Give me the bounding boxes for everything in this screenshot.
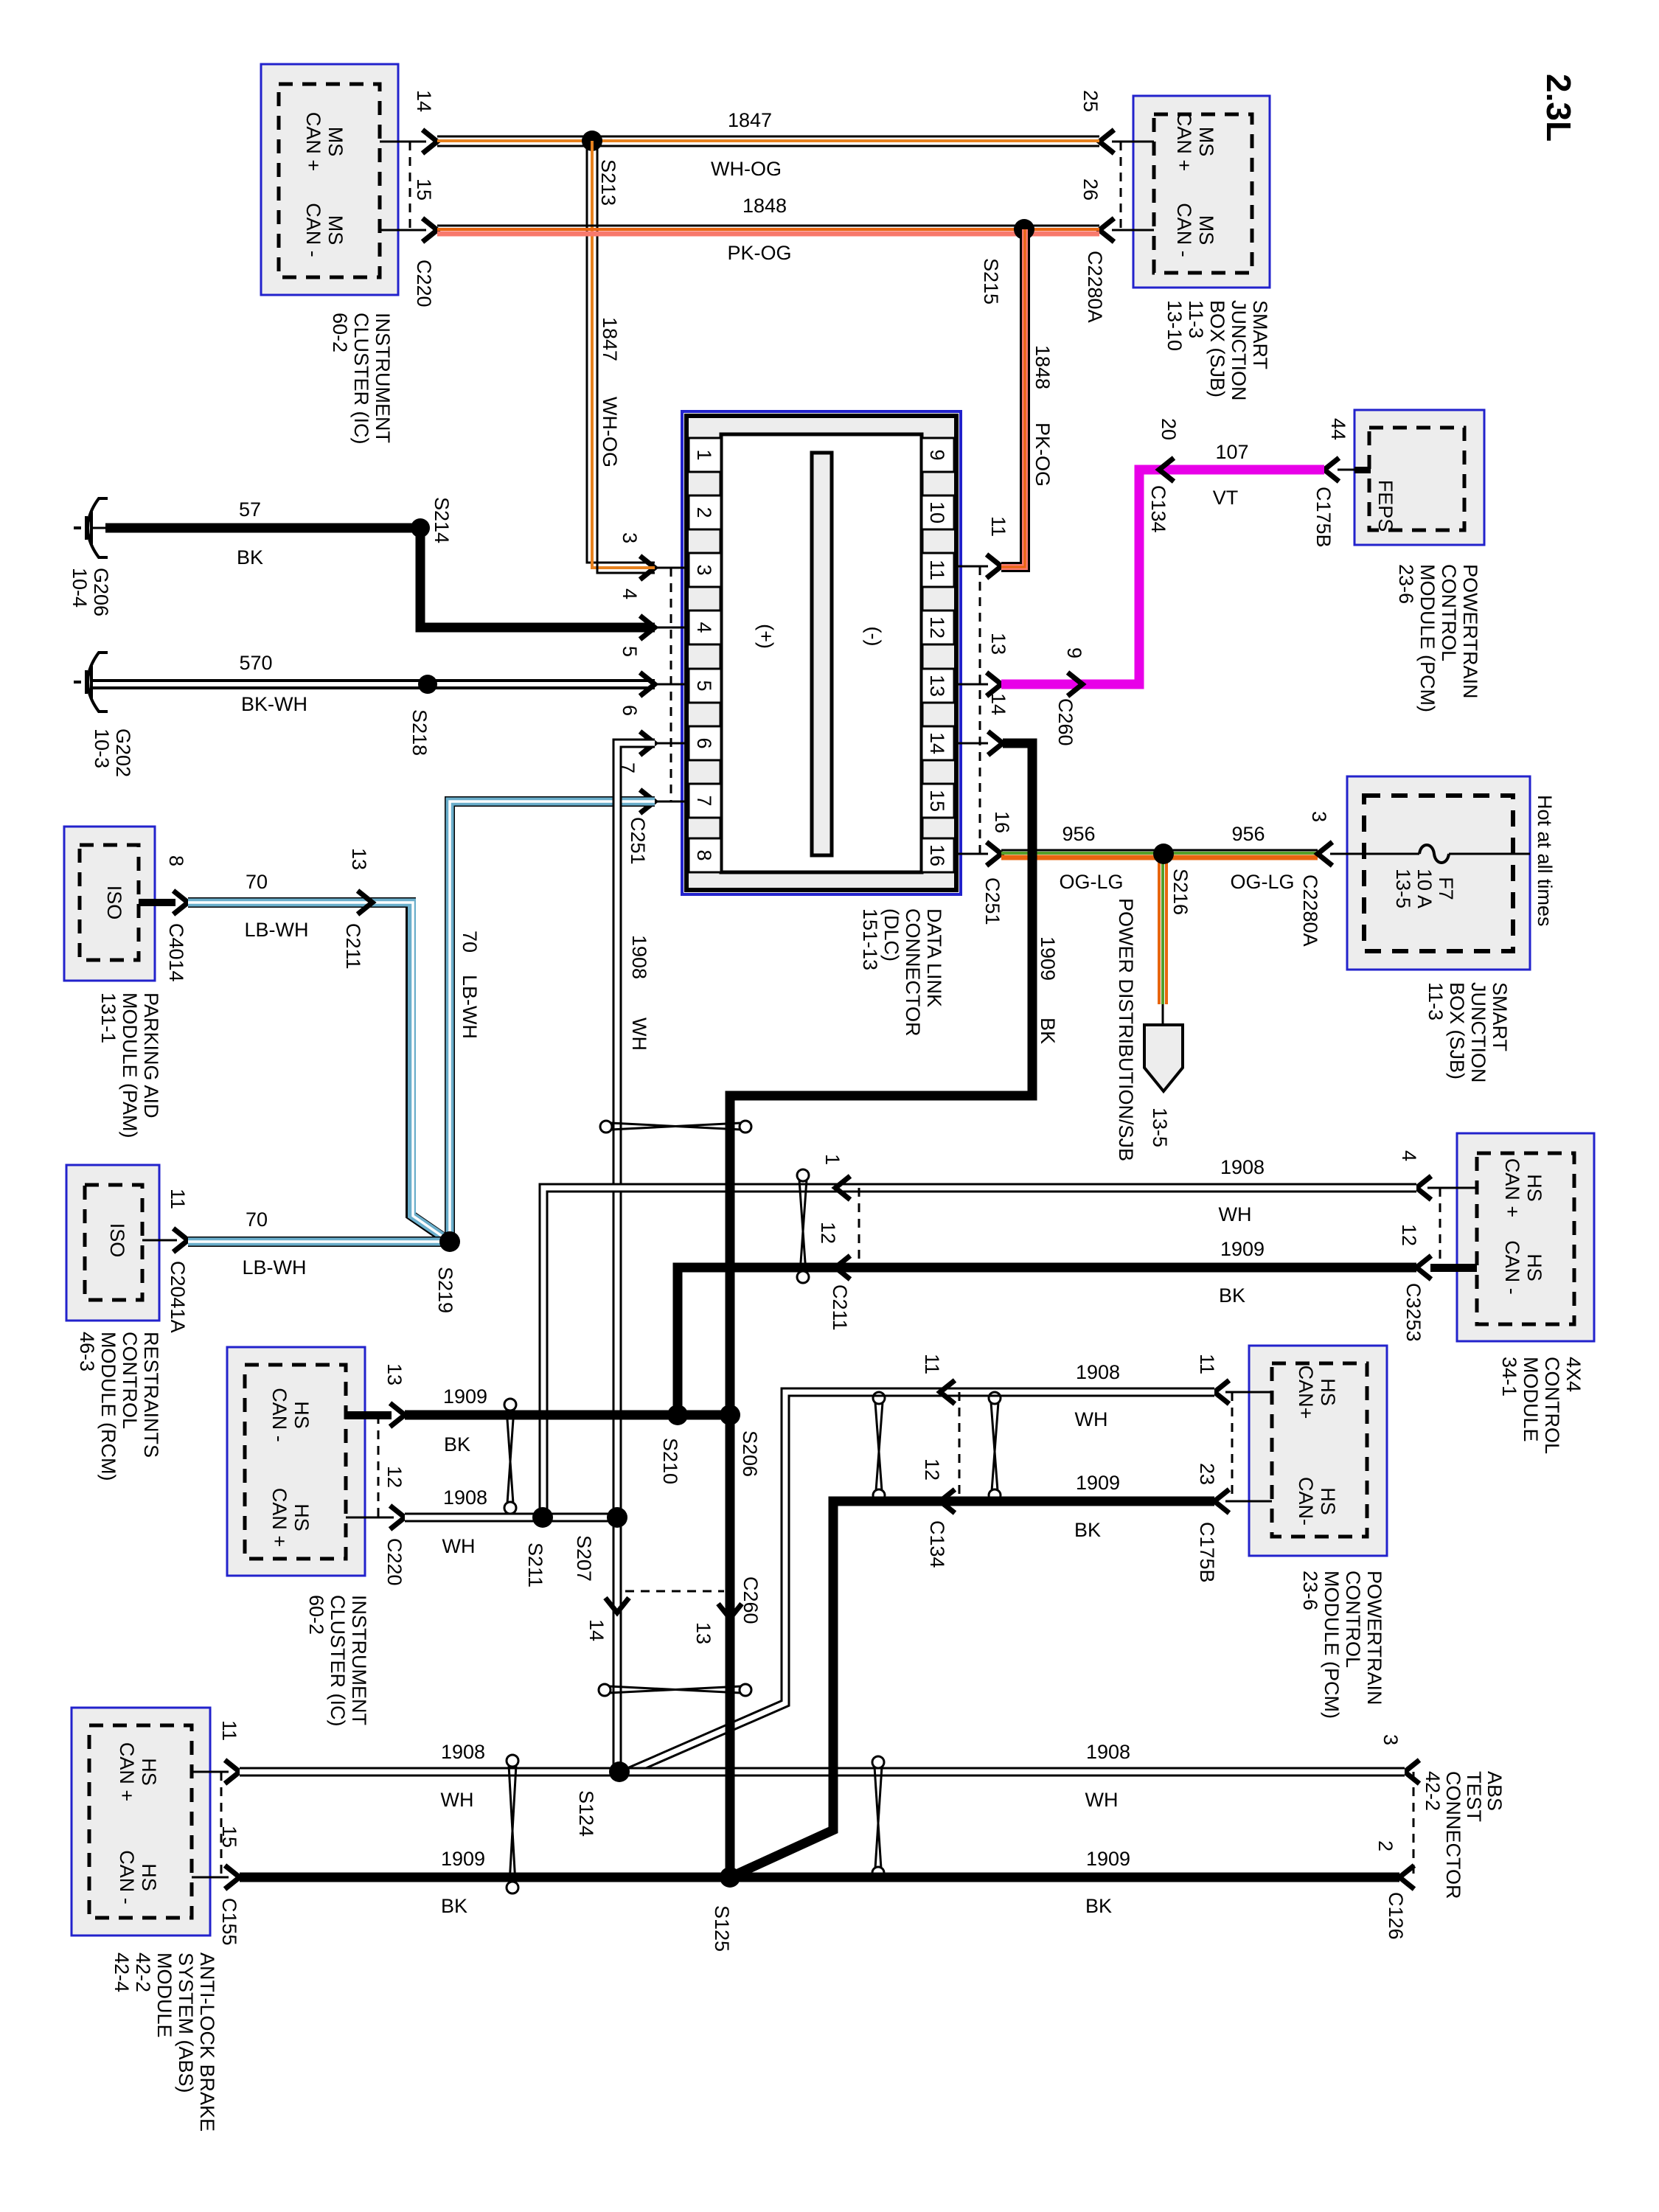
svg-text:HS: HS [1523,1174,1545,1202]
pin 8 stub PAM [139,855,188,914]
svg-text:F7: F7 [1435,877,1457,900]
svg-text:9: 9 [926,449,948,460]
svg-text:1847: 1847 [599,317,621,361]
label POWERTRAIN CONTROL MODULE (PCM) 23-6 bottom [1299,1571,1385,1719]
wire 70 LB-WH DLC pin 7 down to S219 [450,801,655,1242]
svg-text:C4014: C4014 [165,923,187,982]
svg-text:CONNECTOR: CONNECTOR [1442,1771,1464,1899]
svg-text:11: 11 [987,516,1009,537]
pin 23 stub PCM [1196,1463,1272,1513]
svg-text:12: 12 [1398,1224,1420,1246]
svg-text:BK: BK [444,1433,470,1455]
svg-text:C251: C251 [981,877,1004,925]
svg-text:25: 25 [1079,90,1102,112]
svg-text:G206: G206 [90,568,112,616]
svg-text:42-4: 42-4 [111,1952,133,1992]
svg-text:MODULE (PAM): MODULE (PAM) [119,992,141,1138]
svg-text:1909: 1909 [441,1848,485,1870]
label 1908 WH vertical [628,935,650,1051]
DLC pin 5 stub [619,646,686,696]
svg-text:WH-OG: WH-OG [711,158,782,180]
fuse F7 10A [1347,845,1530,908]
svg-text:MODULE: MODULE [153,1952,175,2038]
svg-text:S218: S218 [408,709,431,756]
svg-text:14: 14 [926,732,948,754]
svg-text:4: 4 [1398,1150,1420,1161]
svg-text:CONTROL: CONTROL [119,1332,141,1429]
svg-text:13-5: 13-5 [1149,1107,1171,1147]
twisted pair symbol 4X4 pair [797,1169,809,1283]
label 956 OG-LG left [1059,823,1123,893]
svg-text:CONTROL: CONTROL [1541,1357,1563,1454]
svg-text:C134: C134 [1147,485,1169,533]
label 1909 BK vertical [1037,936,1059,1044]
svg-text:HS: HS [138,1758,160,1786]
svg-text:12: 12 [817,1222,839,1244]
svg-text:S211: S211 [524,1543,546,1587]
svg-text:HS: HS [1317,1378,1339,1406]
pin 11 stub RCM [142,1189,189,1252]
svg-text:10-4: 10-4 [69,568,91,608]
svg-text:23: 23 [1196,1463,1218,1485]
svg-text:6: 6 [619,705,641,716]
label 1847 WH-OG [711,109,782,180]
svg-text:MS: MS [324,127,347,157]
svg-text:6: 6 [693,737,715,748]
svg-text:G202: G202 [112,728,134,777]
svg-text:S219: S219 [434,1267,456,1313]
svg-text:CONTROL: CONTROL [1342,1571,1364,1668]
svg-text:3: 3 [693,564,715,575]
svg-text:1908: 1908 [1076,1361,1120,1383]
svg-text:13: 13 [383,1363,406,1385]
svg-text:5: 5 [619,646,641,657]
svg-text:1909: 1909 [1076,1472,1120,1494]
label 1908 WH 4X4 [1219,1156,1265,1225]
svg-text:BK: BK [441,1895,467,1917]
svg-text:MODULE (PCM): MODULE (PCM) [1321,1571,1343,1719]
svg-text:S125: S125 [711,1905,733,1952]
svg-text:PK-OG: PK-OG [727,242,791,264]
DLC left pin cells 1-8 [689,438,721,872]
svg-text:11: 11 [1196,1354,1218,1374]
svg-text:(DLC): (DLC) [880,908,902,961]
junction S207 [573,1507,627,1582]
label ABS TEST CONNECTOR 42-2 [1422,1771,1506,1899]
svg-text:POWERTRAIN: POWERTRAIN [1459,564,1481,699]
svg-text:1: 1 [693,449,715,460]
pin 12 stub 4X4 [1398,1224,1477,1279]
svg-text:4: 4 [693,622,715,633]
label 1908 WH ABS TEST [1085,1741,1131,1811]
svg-text:70: 70 [459,931,481,953]
label 1909 BK PCM [1074,1472,1120,1541]
svg-text:15: 15 [413,178,435,201]
svg-text:23-6: 23-6 [1299,1571,1321,1610]
wire 1909 BK PCM pin 23 to corner diagonal to S125 [730,1501,1214,1877]
svg-text:C260: C260 [1054,698,1077,746]
svg-text:15: 15 [926,790,948,812]
junction S211 [524,1507,553,1587]
svg-text:2: 2 [693,507,715,518]
pin 25 stub SJB [1079,90,1154,153]
svg-text:13: 13 [926,675,948,697]
svg-text:HS: HS [291,1503,313,1531]
label 570 BK-WH [239,652,307,715]
pin 13 stub IC HS [346,1363,406,1427]
label 70 LB-WH bottom [243,1208,307,1279]
svg-text:S214: S214 [431,497,453,543]
svg-text:CONNECTOR: CONNECTOR [902,908,924,1037]
svg-text:C175B: C175B [1196,1522,1218,1583]
svg-text:S216: S216 [1169,869,1192,915]
svg-text:CAN+: CAN+ [1295,1366,1317,1419]
svg-text:1847: 1847 [728,109,772,131]
svg-text:CLUSTER (IC): CLUSTER (IC) [327,1595,349,1727]
svg-text:1848: 1848 [742,195,787,217]
junction S213 [582,131,619,206]
svg-text:WH: WH [1085,1789,1119,1811]
svg-text:12: 12 [926,616,948,639]
svg-text:CAN-: CAN- [1295,1477,1317,1526]
label 1908 WH IC [442,1486,488,1557]
twisted pair symbol IC HS pair [504,1399,516,1514]
svg-text:60-2: 60-2 [329,313,351,352]
svg-text:JUNCTION: JUNCTION [1467,982,1489,1083]
wire 1909 BK ABS to S125 to ABS TEST [240,1873,1399,1882]
svg-text:WH: WH [442,1535,476,1557]
pin 12 stub IC HS [346,1466,406,1529]
svg-text:PARKING AID: PARKING AID [140,992,162,1119]
wire 570 BK-WH ground to DLC pin 5 [91,681,655,688]
svg-text:(+): (+) [755,624,777,649]
wire 1847 WH-OG horizontal [437,136,1099,146]
svg-text:C220: C220 [383,1538,406,1586]
wire 1909 BK DLC pin 14 down through S206 to S125 [730,743,1032,1877]
svg-text:1848: 1848 [1032,345,1054,389]
svg-text:BOX (SJB): BOX (SJB) [1446,982,1468,1079]
svg-text:WH: WH [1219,1203,1252,1225]
module 4X4 control HS CAN box [1457,1133,1594,1341]
connector C220 dashed boundary IC HS [378,1415,406,1586]
label POWERTRAIN CONTROL MODULE (PCM) 23-6 [1395,564,1481,712]
svg-text:C211: C211 [342,923,364,970]
label 57 BK [237,498,263,568]
svg-text:3: 3 [1380,1734,1402,1745]
svg-text:ISO: ISO [106,1223,128,1258]
junction S125 [711,1867,740,1952]
connector C3253 dashed boundary [1402,1188,1440,1342]
svg-text:LB-WH: LB-WH [243,1256,307,1279]
wire 1909 BK IC pin 13 to S210 to S206 [405,1411,730,1420]
label 1909 BK 4X4 [1219,1238,1265,1307]
wire 57 BK ground to S214 [105,524,420,533]
svg-text:3: 3 [1308,811,1330,822]
svg-text:1908: 1908 [443,1486,487,1509]
wire 956 OG-LG vertical S216 down [1159,854,1166,1025]
svg-text:POWER DISTRIBUTION/SJB: POWER DISTRIBUTION/SJB [1115,898,1137,1161]
svg-text:S210: S210 [659,1438,681,1484]
junction S218 [408,675,437,756]
svg-text:WH: WH [1075,1408,1108,1430]
label 1909 BK IC [443,1385,487,1455]
svg-text:HS: HS [291,1401,313,1429]
wire 1848 PK-OG vertical S215 to DLC pin 11 [1001,229,1025,567]
DLC pin 14 stub [956,693,1009,755]
svg-text:HS: HS [138,1863,160,1891]
svg-text:34-1: 34-1 [1498,1357,1520,1397]
ground G206 [74,498,108,557]
svg-text:CAN -: CAN - [116,1850,138,1905]
svg-text:12: 12 [921,1458,943,1481]
pin 26 stub SJB [1079,178,1154,242]
svg-text:14: 14 [987,693,1009,715]
label 1908 WH PCM [1075,1361,1121,1430]
junction S216 [1169,869,1192,915]
module instrument cluster MS CAN box [261,64,398,295]
svg-text:OG-LG: OG-LG [1230,871,1294,893]
svg-text:CAN -: CAN - [1501,1240,1523,1295]
label 70 LB-WH top [245,871,309,941]
svg-text:RESTRAINTS: RESTRAINTS [140,1332,162,1458]
connector C2280A arrow on OG-LG wire [1299,811,1347,947]
svg-text:(-): (-) [863,627,885,647]
wire 1909 BK 4X4 to corner to S210 [678,1267,1416,1415]
module PCM HS CAN box [1249,1346,1387,1556]
svg-text:CAN +: CAN + [302,112,324,171]
svg-text:S215: S215 [980,258,1002,305]
DLC pin 6 stub [619,705,686,755]
svg-text:CAN +: CAN + [116,1742,138,1801]
svg-text:CAN +: CAN + [268,1488,291,1547]
svg-text:20: 20 [1158,418,1180,440]
svg-text:INSTRUMENT: INSTRUMENT [372,313,394,443]
label 1848 PK-OG vertical [1032,345,1054,487]
svg-text:MODULE (PCM): MODULE (PCM) [1416,564,1439,712]
connector C251 dashed boundary right [980,566,1004,925]
svg-text:26: 26 [1079,178,1102,201]
svg-text:5: 5 [693,680,715,691]
svg-text:S124: S124 [575,1790,597,1837]
svg-text:ISO: ISO [103,886,125,920]
svg-text:42-2: 42-2 [132,1952,154,1992]
svg-text:131-1: 131-1 [97,992,119,1043]
svg-text:JUNCTION: JUNCTION [1228,300,1250,401]
label 1909 BK ABS TEST [1085,1848,1130,1917]
label G202 10-3 [91,728,134,777]
svg-text:POWERTRAIN: POWERTRAIN [1363,1571,1385,1705]
module smart junction box fuse F7 [1347,776,1530,970]
svg-text:INSTRUMENT: INSTRUMENT [348,1595,370,1725]
svg-text:MS: MS [1195,215,1217,246]
power distribution pentagon symbol [1144,1025,1183,1091]
connector C2280A dashed boundary [1084,142,1121,323]
svg-text:LB-WH: LB-WH [459,975,481,1039]
svg-text:CONTROL: CONTROL [1438,564,1460,661]
module smart junction box MS CAN [1133,96,1270,288]
svg-text:1908: 1908 [1220,1156,1265,1178]
label 956 OG-LG right [1230,823,1294,893]
svg-text:1: 1 [821,1154,844,1165]
twisted pair symbol horizontal lower [599,1684,751,1696]
svg-text:12: 12 [383,1466,406,1488]
svg-text:PK-OG: PK-OG [1032,422,1054,487]
svg-text:44: 44 [1327,418,1349,440]
label SMART JUNCTION BOX (SJB) 11-3 13-10 [1164,300,1271,401]
connector ABS TEST C126 [1374,1734,1419,1940]
svg-text:Hot at all times: Hot at all times [1534,795,1556,927]
svg-text:CAN +: CAN + [1501,1158,1523,1217]
svg-text:10: 10 [926,501,948,524]
svg-text:1909: 1909 [1037,936,1059,981]
svg-text:VT: VT [1213,487,1239,509]
svg-text:16: 16 [926,844,948,866]
svg-text:HS: HS [1523,1253,1545,1281]
wire 57 BK S214 to DLC pin 4 [420,528,655,627]
svg-text:13: 13 [348,848,370,870]
wire 1908 WH IC pin 12 to S211 to S207 [405,1513,617,1523]
svg-text:16: 16 [991,811,1013,833]
svg-text:WH: WH [628,1018,650,1051]
svg-text:13-5: 13-5 [1392,869,1414,908]
svg-text:SMART: SMART [1489,982,1511,1051]
svg-text:C220: C220 [413,260,435,307]
svg-text:8: 8 [693,849,715,860]
connector C260 arrow on VT wire [1054,647,1085,746]
svg-text:13: 13 [692,1622,714,1644]
svg-text:11: 11 [921,1354,943,1374]
connector C260 arrows vertical pair [585,1576,762,1644]
svg-text:BK: BK [1085,1895,1112,1917]
wire 1908 WH 4X4 to corner to S211 [543,1188,1416,1517]
junction S216 dot [1153,844,1174,864]
svg-text:1909: 1909 [1086,1848,1130,1870]
svg-text:3: 3 [619,532,641,543]
twisted pair symbol PCM pair left [873,1392,885,1501]
label 1848 PK-OG [727,195,791,264]
svg-text:CAN -: CAN - [302,203,324,257]
wire 1908 WH ABS to S124 to ABS TEST [240,1767,1405,1777]
DLC pin 16 stub [956,811,1013,866]
svg-text:2.3L: 2.3L [1540,74,1578,142]
module ABS HS CAN box [72,1708,210,1935]
svg-text:CAN -: CAN - [268,1388,291,1442]
svg-text:C2280A: C2280A [1299,874,1321,947]
connector C134 arrow on VT wire [1147,418,1180,533]
svg-text:46-3: 46-3 [76,1332,98,1371]
svg-text:13: 13 [987,633,1009,655]
svg-text:11-3: 11-3 [1425,982,1447,1020]
twisted pair symbol ABS TEST pair [872,1756,884,1879]
twisted pair symbol ABS pair [507,1755,518,1893]
wire 1847 WH-OG vertical S213 to DLC pin 3 [587,141,655,573]
svg-text:DATA LINK: DATA LINK [923,908,945,1007]
svg-text:FEPS: FEPS [1374,480,1397,532]
svg-text:C175B: C175B [1312,487,1335,548]
svg-text:ANTI-LOCK BRAKE: ANTI-LOCK BRAKE [196,1952,218,2132]
wire 70 LB-WH RCM to S219 [188,1237,450,1247]
svg-text:42-2: 42-2 [1422,1771,1444,1811]
pin 15 stub ABS [192,1826,240,1889]
svg-text:BK: BK [1037,1018,1059,1044]
svg-text:2: 2 [1374,1840,1397,1851]
svg-text:C260: C260 [740,1576,762,1624]
pin 44 stub FEPS [1324,418,1371,481]
twisted pair symbol PCM pair right [989,1392,1001,1501]
label 1847 WH-OG vertical [599,317,621,467]
svg-text:10 A: 10 A [1413,869,1436,908]
svg-text:BK: BK [1219,1284,1245,1307]
svg-text:1908: 1908 [1086,1741,1130,1763]
svg-text:1909: 1909 [443,1385,487,1408]
svg-text:C211: C211 [829,1284,851,1331]
svg-text:570: 570 [239,652,272,674]
label 107 VT [1213,441,1249,509]
svg-text:S206: S206 [739,1430,761,1477]
svg-text:60-2: 60-2 [305,1595,327,1635]
svg-text:BK: BK [237,546,263,568]
wire 107 VT FEPS to DLC pin 13 [1001,470,1324,684]
DLC pin 11 stub [956,516,1009,578]
connector C211 arrows on 1908 1909 pair [817,1154,859,1331]
label SMART JUNCTION BOX (SJB) 11-3 [1425,982,1511,1083]
svg-text:C134: C134 [926,1520,948,1568]
wire 1848 PK-OG horizontal [437,226,1099,234]
DLC right pin cells 9-16 [922,438,954,872]
connector C134 arrows on PCM pair [921,1354,959,1568]
label 1909 BK ABS [441,1848,485,1917]
label 4X4 CONTROL MODULE 34-1 [1498,1357,1585,1454]
svg-text:OG-LG: OG-LG [1059,871,1123,893]
module instrument cluster HS CAN box [227,1347,365,1576]
svg-text:CAN +: CAN + [1173,112,1195,171]
label INSTRUMENT CLUSTER (IC) 60-2 [329,313,394,445]
module parking aid PAM ISO box [64,827,155,981]
svg-text:14: 14 [585,1619,608,1641]
svg-text:151-13: 151-13 [859,908,881,970]
svg-text:11: 11 [218,1720,240,1741]
svg-text:9: 9 [1063,647,1085,658]
svg-text:1909: 1909 [1220,1238,1265,1260]
svg-text:C126: C126 [1385,1892,1407,1940]
wire 1908 WH PCM pin 11 to corner diagonal to S124 [628,1392,1214,1772]
svg-text:956: 956 [1231,823,1265,845]
svg-text:WH: WH [441,1789,474,1811]
DLC pin 13 stub [956,633,1009,696]
connector C155 dashed boundary [218,1772,240,1946]
svg-text:4: 4 [619,588,641,599]
svg-text:S207: S207 [573,1535,595,1582]
svg-text:107: 107 [1215,441,1248,463]
pin 4 stub 4X4 [1398,1150,1477,1200]
junction S210 [659,1405,688,1484]
junction S214 [411,497,453,543]
label POWER DISTRIBUTION/SJB 13-5 [1115,898,1171,1161]
svg-text:C2041A: C2041A [167,1261,189,1333]
svg-text:23-6: 23-6 [1395,564,1417,604]
svg-text:13-10: 13-10 [1164,300,1186,351]
label PARKING AID MODULE (PAM) 131-1 [97,992,162,1138]
pin 15 stub IC [380,178,437,242]
svg-text:BK: BK [1074,1519,1101,1541]
wire 70 LB-WH PAM to C211 to S219 [188,902,447,1239]
svg-text:8: 8 [165,855,187,866]
pin 11 stub PCM [1196,1354,1272,1404]
svg-text:BOX (SJB): BOX (SJB) [1206,300,1228,397]
svg-text:C2280A: C2280A [1084,251,1106,323]
connector C251 dashed boundary left [627,568,671,865]
svg-text:S213: S213 [597,159,619,206]
